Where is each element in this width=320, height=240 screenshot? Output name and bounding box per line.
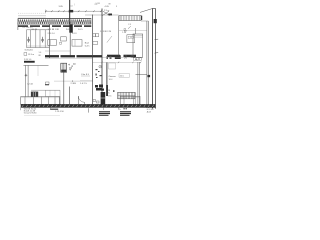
svg-text:1.23 4.56: 1.23 4.56 [55,111,65,113]
svg-text:88: 88 [39,55,41,57]
svg-text:12.34: 12.34 [27,84,33,86]
svg-text:Flur 8.5: Flur 8.5 [82,73,90,76]
svg-text:1.0: 1.0 [39,52,42,54]
svg-text:6.2m: 6.2m [85,46,90,48]
svg-text:2.5: 2.5 [128,24,131,26]
svg-text:Schlafen: Schlafen [25,49,34,51]
svg-text:2.26 1.0: 2.26 1.0 [48,33,56,35]
svg-text:88: 88 [109,3,111,5]
svg-text:Gesamt 96.80: Gesamt 96.80 [24,112,37,115]
svg-text:2.26 1.0: 2.26 1.0 [24,59,32,61]
svg-text:1.64 88: 1.64 88 [31,29,37,31]
svg-text:9x: 9x [108,92,110,94]
svg-text:A-03: A-03 [147,110,151,113]
svg-text:1.01 88 1.38: 1.01 88 1.38 [48,29,60,31]
svg-text:1.13 88 2.26: 1.13 88 2.26 [100,31,112,33]
svg-text:1.135: 1.135 [96,3,101,5]
svg-text:2.385: 2.385 [71,83,77,85]
svg-text:2x: 2x [119,109,121,111]
svg-text:Zimmer: Zimmer [109,75,117,78]
svg-text:1.0 2.5: 1.0 2.5 [80,83,87,85]
svg-text:15.3 m: 15.3 m [28,54,35,56]
svg-text:28: 28 [108,90,110,92]
svg-text:2.635: 2.635 [66,29,72,31]
